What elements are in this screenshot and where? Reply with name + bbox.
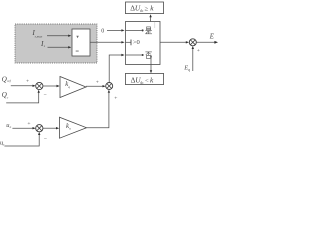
gain ku xyxy=(60,117,87,138)
wire S2 to ku xyxy=(43,127,57,129)
condition link lower arrow xyxy=(150,55,152,58)
svg-text:u: u xyxy=(69,127,71,131)
switch common input tick xyxy=(126,41,132,43)
wire ku elbow up to S3 xyxy=(87,93,109,128)
wire Eq input xyxy=(192,49,194,71)
switch terminal yes wire xyxy=(126,29,142,31)
svg-text:+: + xyxy=(27,121,30,127)
wire switch output to multiplier xyxy=(160,41,186,43)
wire Qc feedback xyxy=(6,92,39,103)
wire 0 to switch xyxy=(107,29,122,31)
limiter upper mark xyxy=(76,36,79,39)
summing junction S2 xyxy=(36,125,43,132)
wire kq to S3 xyxy=(86,85,103,87)
svg-text:<: < xyxy=(145,77,149,84)
wire droop sum up to switch xyxy=(109,55,122,82)
gain kq xyxy=(60,77,86,98)
svg-text:>0: >0 xyxy=(133,39,141,46)
summing junction S3 xyxy=(106,83,113,90)
glyph no (否) xyxy=(145,52,152,59)
svg-text:dc: dc xyxy=(140,9,144,13)
svg-text:+: + xyxy=(114,96,117,102)
svg-text:dc: dc xyxy=(140,81,144,85)
condition box dUdc>=k xyxy=(126,2,164,14)
condition link upper arrow xyxy=(150,16,152,21)
svg-text:−: − xyxy=(44,136,47,142)
summing junction S4 xyxy=(189,39,196,46)
limiter lower mark xyxy=(76,50,79,53)
switch terminal no wire xyxy=(126,54,142,56)
limiter block U1 xyxy=(72,29,90,56)
dashed condition tap upper xyxy=(154,22,156,29)
summing junction S1 xyxy=(36,82,43,89)
switch block xyxy=(126,22,161,65)
svg-text:q: q xyxy=(188,68,190,72)
svg-text:q: q xyxy=(68,85,70,89)
svg-text:0: 0 xyxy=(101,29,104,35)
wire Qref arrow xyxy=(11,85,33,87)
wire Is,max arrow xyxy=(47,35,69,37)
svg-text:−: − xyxy=(44,93,47,99)
terminal dot no xyxy=(142,54,144,56)
wire Is arrow xyxy=(48,46,69,48)
svg-text:≥: ≥ xyxy=(144,6,148,13)
condition box dUdc<k xyxy=(125,74,163,85)
svg-text:+: + xyxy=(197,48,200,54)
wire E output xyxy=(196,41,215,43)
svg-text:+: + xyxy=(96,80,99,86)
glyph yes (是) xyxy=(145,27,152,34)
terminal dot yes xyxy=(142,29,144,31)
wire uo feedback xyxy=(4,135,39,146)
svg-text:+: + xyxy=(26,78,29,84)
svg-text:E: E xyxy=(209,33,215,40)
wire limiter output to switch xyxy=(90,41,122,43)
current-limit dashed subsystem box xyxy=(15,24,97,63)
wire S1 to kq xyxy=(43,85,57,87)
wire un arrow xyxy=(12,127,33,129)
